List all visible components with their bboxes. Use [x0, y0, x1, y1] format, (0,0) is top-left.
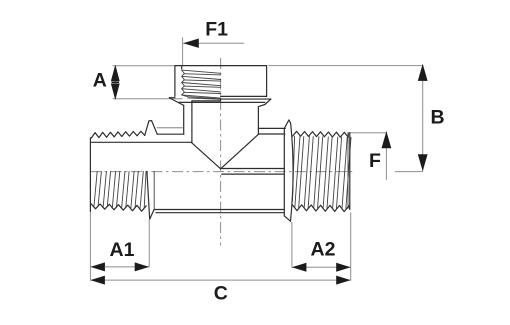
- A dimension lower arrowhead: [111, 84, 120, 101]
- B dimension lower arrowhead: [418, 154, 428, 171]
- F extension line: [349, 132, 387, 134]
- right boss shoulder line: [258, 133, 284, 135]
- right port: top crest zigzag: [293, 131, 349, 137]
- right collar disk: [284, 120, 290, 129]
- right port: end face: [348, 133, 351, 210]
- left groove hidden edge (thin): [157, 127, 183, 129]
- left port: lower thread runout wedge: [147, 171, 154, 219]
- left end extension line (A1 / C): [89, 212, 91, 281]
- left port: root line / body top line: [92, 141, 192, 143]
- A2 right arrowhead: [336, 263, 351, 272]
- A1 right extension line: [148, 220, 150, 267]
- top female port: internal threads (left half section): [182, 70, 221, 98]
- B dimension line: [422, 65, 424, 172]
- bore edge upper line: [221, 168, 285, 170]
- A2 left extension line: [291, 222, 293, 268]
- tee bore chamfer V: left diagonal: [191, 142, 220, 169]
- F1 arrowhead: [183, 39, 199, 48]
- svg-text:A2: A2: [311, 239, 336, 261]
- top female port: last thread sliver to centerline: [182, 95, 221, 99]
- bore edge lower line: [222, 173, 284, 175]
- F dimension line: [385, 132, 387, 180]
- left port: top crest zigzag (tapered): [90, 131, 144, 138]
- left port: lower thread flank lines: [94, 171, 146, 209]
- top port flange: right tip diagonal into neck: [258, 99, 271, 107]
- svg-text:B: B: [431, 107, 445, 129]
- A1 right arrowhead: [135, 262, 150, 271]
- B bottom extension line: [395, 171, 423, 173]
- svg-text:F1: F1: [205, 19, 228, 41]
- svg-text:A1: A1: [110, 239, 135, 261]
- A top extension line: [113, 65, 175, 67]
- F1 extension line: [182, 37, 184, 65]
- top port flange: bottom edge: [179, 101, 265, 103]
- svg-text:F: F: [369, 150, 381, 172]
- top port neck right wall: [257, 107, 259, 135]
- right port: thread flank lines: [293, 136, 352, 209]
- right port: bottom crest zigzag: [292, 205, 349, 212]
- top female port: outer body: [175, 66, 267, 97]
- top port bore left inner wall: [191, 101, 193, 142]
- C left arrowhead: [90, 276, 105, 285]
- right port: thread runout at end: [347, 133, 349, 208]
- B dimension upper arrowhead: [418, 64, 428, 81]
- top port neck left wall: [183, 105, 185, 134]
- A bottom extension line: [113, 98, 183, 100]
- body bottom lower line: [156, 212, 284, 214]
- top port counterbore shoulder: [192, 99, 221, 101]
- A2 dimension line: [292, 266, 351, 268]
- vertical centerline of top branch: [220, 58, 222, 246]
- A1 dimension line: [90, 266, 149, 268]
- C right arrowhead: [336, 276, 351, 285]
- left port: end face: [89, 138, 91, 211]
- svg-text:A: A: [93, 70, 107, 92]
- A dimension line: [114, 66, 116, 99]
- F1 dimension line: [183, 42, 244, 44]
- right boss top line: [258, 127, 285, 129]
- top port flange: top edge (right of section cut): [221, 95, 267, 97]
- left port: bottom crest zigzag (tapered): [91, 204, 146, 212]
- tee bore chamfer V: right diagonal: [221, 134, 259, 169]
- svg-text:C: C: [214, 283, 228, 305]
- horizontal centerline of run: [90, 171, 352, 173]
- right end extension line (A2 / C): [350, 213, 352, 281]
- A1 left arrowhead: [90, 262, 105, 271]
- left port: thread runout flag: [145, 121, 158, 136]
- A dimension centre tick: [112, 81, 120, 83]
- F dimension arrowhead: [382, 131, 392, 148]
- left groove bottom edge: [157, 133, 184, 135]
- B top extension line: [268, 65, 423, 67]
- A dimension upper arrowhead: [111, 65, 120, 82]
- body bottom upper line: [154, 209, 284, 211]
- top female port: internal thread bore left wall stub: [181, 66, 183, 69]
- C dimension line: [90, 279, 350, 281]
- top port flange: left tip diagonal into neck: [169, 98, 183, 106]
- top port flange: mid edge right half: [220, 98, 271, 100]
- A2 left arrowhead: [292, 263, 307, 272]
- top port flange: left jut: [169, 97, 175, 99]
